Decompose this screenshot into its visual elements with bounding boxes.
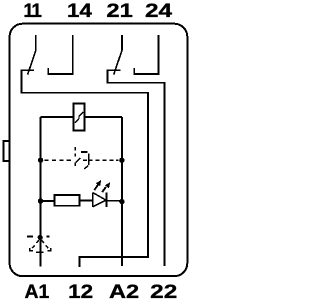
mounting tab on left edge (4, 141, 10, 161)
dashed diode D3 right hook (47, 248, 50, 251)
svg-text:A1: A1 (25, 282, 50, 300)
dashed diode D3 right side (42, 240, 49, 248)
dashed LED D2 wire mid dash (83, 159, 87, 161)
wire coil left (41, 116, 74, 118)
relay body outline (10, 24, 188, 277)
LED D1 arrow 2 (102, 187, 106, 192)
wire NC contact bar and route to 22 (107, 70, 164, 266)
LED D1 arrow 1 (94, 185, 98, 191)
dashed wire right (89, 159, 119, 161)
svg-text:A2: A2 (109, 281, 139, 300)
wire resistor to LED (80, 200, 93, 202)
wire terminal 21 stub (121, 35, 123, 51)
svg-text:22: 22 (150, 281, 177, 300)
dashed wire left (45, 159, 73, 161)
dashed LED D2 cathode bar (88, 153, 90, 165)
wire NO contact 14 (48, 35, 73, 74)
svg-text:1: 1 (31, 1, 42, 22)
dashed LED D2 anode bar (74, 147, 76, 166)
node dot suppressor (38, 235, 43, 240)
relay coil (73, 104, 84, 131)
wire LED to A2 (106, 200, 122, 202)
LED D1 arrow 2 head (105, 182, 110, 188)
LED D1 arrow 1 head (96, 180, 101, 186)
svg-text:24: 24 (145, 0, 173, 21)
svg-text:21: 21 (106, 0, 132, 21)
dashed diode D3 top bar (27, 236, 49, 238)
wire resistor left (41, 200, 55, 202)
LED D1 cathode bar (105, 192, 107, 207)
wire A1 vertical (40, 117, 42, 267)
svg-text:14: 14 (67, 1, 92, 22)
node dot right dashed row (119, 158, 124, 163)
wire NC contact bar and route to 12 (21, 70, 148, 267)
dashed diode D3 base dash (36, 251, 43, 253)
dashed diode D3 left hook (30, 248, 33, 251)
wire NO contact 24 (134, 35, 158, 74)
node dot left LED row (38, 198, 43, 203)
node dot left dashed row (38, 158, 43, 163)
dashed LED D2 arrow top (81, 151, 87, 153)
LED D1 triangle (93, 193, 108, 207)
contact blade K1 (pole 11) (28, 51, 36, 75)
wire coil right (85, 116, 122, 118)
LED D1 anode bar (92, 192, 94, 207)
coil diagonal (75, 112, 83, 123)
wire A2 vertical (121, 117, 123, 266)
dashed diode D3 left side (32, 240, 39, 248)
node dot right LED row (119, 199, 124, 204)
dashed LED D2 lower tick (84, 166, 88, 169)
svg-text:12: 12 (68, 282, 93, 300)
dashed LED D2 bottom side dash (76, 158, 81, 163)
contact blade K2 (pole 21) (114, 51, 122, 75)
wire terminal 11 stub (35, 35, 37, 51)
resistor R1 (55, 195, 80, 206)
